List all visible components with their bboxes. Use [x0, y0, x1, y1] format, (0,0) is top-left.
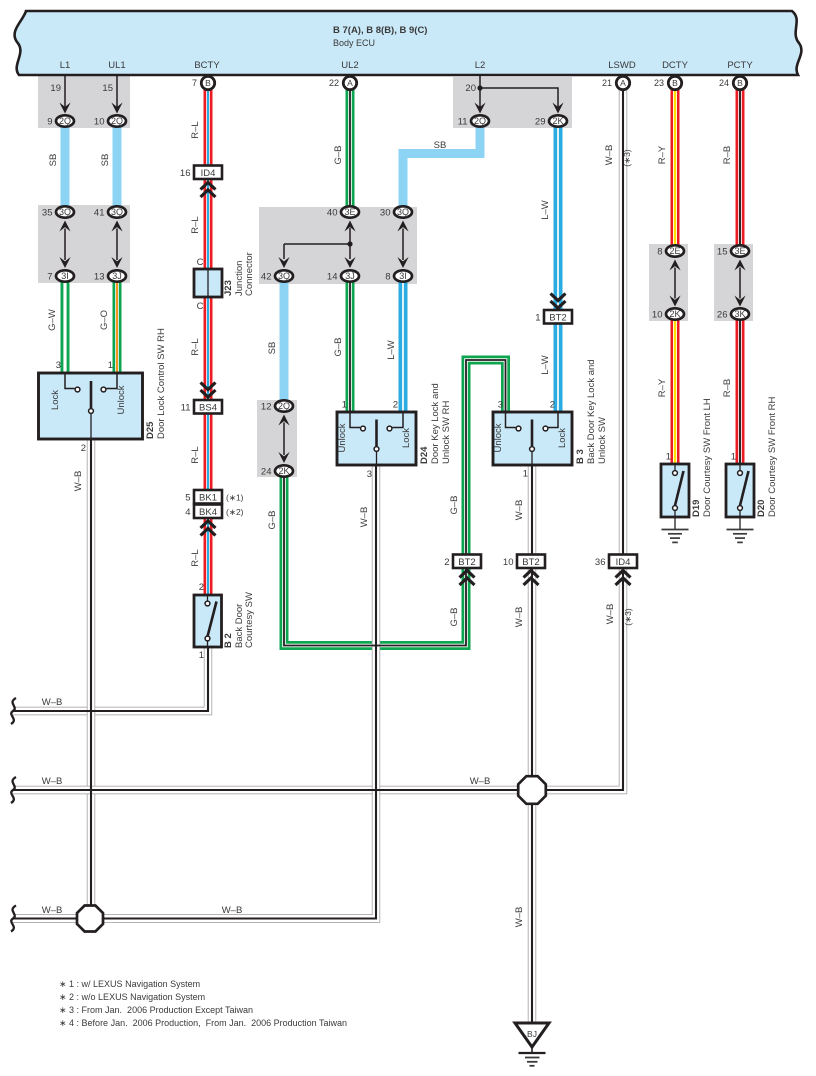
svg-text:R–L: R–L [190, 338, 201, 355]
svg-text:3E: 3E [734, 246, 745, 256]
svg-text:Door Courtesy SW Front RH: Door Courtesy SW Front RH [767, 397, 778, 517]
svg-text:3I: 3I [61, 271, 69, 281]
svg-text:20: 20 [465, 83, 476, 94]
svg-text:W–B: W–B [514, 500, 525, 521]
svg-text:Unlock: Unlock [116, 385, 127, 414]
svg-text:R–L: R–L [190, 549, 201, 566]
svg-text:W–B: W–B [514, 607, 525, 628]
svg-text:16: 16 [180, 168, 191, 179]
svg-text:7: 7 [47, 271, 52, 282]
svg-text:15: 15 [717, 246, 728, 257]
svg-text:UL2: UL2 [341, 60, 358, 71]
svg-text:Unlock SW RH: Unlock SW RH [441, 401, 452, 464]
svg-text:B 3: B 3 [575, 449, 586, 464]
svg-text:3Q: 3Q [397, 207, 409, 217]
svg-text:Door Lock Control SW RH: Door Lock Control SW RH [156, 328, 167, 439]
svg-text:C: C [197, 257, 204, 268]
svg-text:40: 40 [327, 207, 338, 218]
svg-text:(∗2): (∗2) [226, 507, 244, 517]
svg-text:1: 1 [108, 360, 113, 371]
svg-text:W–B: W–B [42, 776, 63, 787]
svg-text:BS4: BS4 [199, 403, 217, 414]
svg-text:B: B [672, 78, 678, 88]
svg-text:SB: SB [100, 154, 111, 167]
svg-text:Unlock: Unlock [337, 423, 348, 452]
svg-text:BJ: BJ [527, 1029, 537, 1039]
svg-text:3J: 3J [112, 271, 122, 281]
svg-text:G–B: G–B [333, 145, 344, 164]
svg-text:L–W: L–W [386, 340, 397, 360]
svg-text:B 2: B 2 [223, 633, 234, 648]
svg-text:3: 3 [367, 469, 372, 480]
svg-text:1: 1 [523, 469, 528, 480]
svg-text:Connector: Connector [244, 252, 255, 296]
svg-text:5: 5 [185, 493, 190, 504]
svg-text:C: C [197, 301, 204, 312]
svg-text:BK4: BK4 [199, 507, 217, 518]
svg-text:3Q: 3Q [59, 207, 71, 217]
svg-text:BT2: BT2 [522, 557, 539, 568]
svg-text:G–O: G–O [99, 310, 110, 330]
svg-text:W–B: W–B [222, 905, 243, 916]
svg-text:24: 24 [719, 78, 729, 88]
svg-text:W–B: W–B [42, 697, 63, 708]
svg-text:2K: 2K [278, 466, 289, 476]
svg-text:2Q: 2Q [278, 401, 290, 411]
svg-text:1: 1 [731, 452, 736, 463]
svg-text:36: 36 [595, 557, 606, 568]
svg-text:BT2: BT2 [549, 313, 566, 324]
svg-text:LSWD: LSWD [608, 60, 636, 71]
svg-text:G–B: G–B [333, 337, 344, 356]
svg-text:10: 10 [503, 557, 514, 568]
svg-text:W–B: W–B [42, 905, 63, 916]
svg-text:R–L: R–L [190, 216, 201, 233]
svg-text:Back Door Key Lock and: Back Door Key Lock and [586, 359, 597, 464]
svg-text:2: 2 [550, 400, 555, 411]
svg-text:R–B: R–B [722, 379, 733, 397]
svg-text:W–B: W–B [514, 907, 525, 928]
svg-text:L–W: L–W [540, 355, 551, 375]
svg-text:2: 2 [393, 400, 398, 411]
svg-text:SB: SB [434, 140, 447, 151]
svg-text:R–L: R–L [190, 121, 201, 138]
svg-text:D19: D19 [691, 500, 702, 517]
svg-text:DCTY: DCTY [662, 60, 689, 71]
svg-text:24: 24 [261, 466, 272, 477]
svg-text:19: 19 [50, 83, 61, 94]
svg-text:(∗1): (∗1) [226, 493, 244, 503]
svg-text:22: 22 [329, 78, 339, 88]
svg-text:B: B [737, 78, 743, 88]
svg-text:4: 4 [185, 507, 190, 518]
svg-text:8: 8 [657, 246, 662, 257]
svg-text:10: 10 [652, 309, 663, 320]
svg-text:3Q: 3Q [111, 207, 123, 217]
svg-text:1: 1 [199, 650, 204, 661]
svg-text:ID4: ID4 [616, 557, 631, 568]
svg-text:G–B: G–B [449, 495, 460, 514]
svg-text:29: 29 [535, 116, 546, 127]
svg-text:3E: 3E [344, 207, 355, 217]
svg-text:Door Key Lock and: Door Key Lock and [430, 383, 441, 464]
svg-text:1: 1 [535, 313, 540, 324]
svg-text:11: 11 [181, 403, 191, 414]
svg-text:W–B: W–B [604, 145, 615, 166]
svg-text:R–Y: R–Y [657, 378, 668, 397]
svg-text:L–W: L–W [540, 200, 551, 220]
svg-text:A: A [347, 78, 353, 88]
svg-text:(∗3): (∗3) [623, 608, 633, 626]
svg-text:UL1: UL1 [108, 60, 125, 71]
svg-text:3I: 3I [399, 271, 407, 281]
svg-text:15: 15 [102, 83, 113, 94]
svg-text:2: 2 [199, 582, 204, 593]
svg-text:2: 2 [444, 557, 449, 568]
svg-text:35: 35 [42, 207, 53, 218]
svg-text:3: 3 [56, 360, 61, 371]
svg-text:23: 23 [654, 78, 664, 88]
svg-text:9: 9 [47, 116, 52, 127]
svg-text:Unlock SW: Unlock SW [597, 417, 608, 464]
svg-text:7: 7 [192, 78, 197, 88]
svg-text:B: B [205, 78, 211, 88]
svg-text:∗ 2 : w/o LEXUS Navigation Sys: ∗ 2 : w/o LEXUS Navigation System [59, 992, 205, 1002]
svg-text:Lock: Lock [50, 390, 61, 410]
svg-text:3Q: 3Q [278, 271, 290, 281]
svg-text:BT2: BT2 [458, 557, 475, 568]
svg-text:Unlock: Unlock [493, 423, 504, 452]
svg-text:2Q: 2Q [111, 116, 123, 126]
svg-text:2Q: 2Q [474, 116, 486, 126]
svg-text:PCTY: PCTY [727, 60, 753, 71]
svg-text:G–W: G–W [47, 309, 58, 331]
svg-text:8: 8 [385, 271, 390, 282]
svg-text:W–B: W–B [73, 471, 84, 492]
svg-text:Door Courtesy SW Front LH: Door Courtesy SW Front LH [702, 398, 713, 517]
svg-text:42: 42 [261, 271, 272, 282]
svg-text:W–B: W–B [470, 776, 491, 787]
svg-text:12: 12 [261, 401, 272, 412]
svg-text:26: 26 [717, 309, 728, 320]
svg-text:2K: 2K [552, 116, 563, 126]
svg-text:10: 10 [94, 116, 105, 127]
svg-text:21: 21 [602, 78, 612, 88]
svg-text:A: A [620, 78, 626, 88]
svg-text:Lock: Lock [401, 428, 412, 448]
svg-text:W–B: W–B [359, 507, 370, 528]
svg-text:∗ 3 : From Jan. 2006 Producti: ∗ 3 : From Jan. 2006 Production Except T… [59, 1005, 253, 1015]
svg-text:2E: 2E [669, 246, 680, 256]
svg-text:J23: J23 [223, 280, 234, 296]
svg-text:14: 14 [327, 271, 338, 282]
svg-text:41: 41 [94, 207, 105, 218]
svg-text:BCTY: BCTY [194, 60, 220, 71]
svg-text:B 7(A), B 8(B), B 9(C): B 7(A), B 8(B), B 9(C) [333, 25, 427, 36]
svg-text:SB: SB [48, 154, 59, 167]
svg-text:D24: D24 [419, 446, 430, 464]
svg-text:2K: 2K [669, 309, 680, 319]
svg-text:R–Y: R–Y [657, 145, 668, 164]
svg-text:(∗3): (∗3) [622, 149, 632, 167]
svg-text:2: 2 [81, 443, 86, 454]
svg-text:G–B: G–B [267, 510, 278, 529]
svg-text:G–B: G–B [449, 607, 460, 626]
svg-text:R–L: R–L [190, 446, 201, 463]
svg-text:∗ 1 : w/ LEXUS Navigation Syst: ∗ 1 : w/ LEXUS Navigation System [59, 979, 200, 989]
svg-text:Lock: Lock [557, 428, 568, 448]
svg-text:3: 3 [498, 400, 503, 411]
svg-text:30: 30 [380, 207, 391, 218]
svg-text:13: 13 [94, 271, 105, 282]
svg-text:R–B: R–B [722, 146, 733, 164]
svg-text:1: 1 [342, 400, 347, 411]
svg-text:D20: D20 [756, 500, 767, 517]
svg-text:Body ECU: Body ECU [333, 38, 375, 48]
svg-text:3K: 3K [734, 309, 745, 319]
svg-text:L1: L1 [60, 60, 71, 71]
svg-text:ID4: ID4 [201, 168, 216, 179]
svg-text:Courtesy SW: Courtesy SW [244, 592, 255, 648]
svg-text:2Q: 2Q [59, 116, 71, 126]
svg-text:3J: 3J [345, 271, 355, 281]
svg-text:BK1: BK1 [199, 493, 217, 504]
svg-text:W–B: W–B [605, 604, 616, 625]
svg-text:SB: SB [267, 342, 278, 355]
svg-text:1: 1 [666, 452, 671, 463]
svg-text:D25: D25 [145, 421, 156, 439]
svg-text:∗ 4 : Before Jan. 2006 Produc: ∗ 4 : Before Jan. 2006 Production, From … [59, 1018, 347, 1028]
svg-text:11: 11 [458, 116, 468, 127]
svg-text:L2: L2 [475, 60, 486, 71]
